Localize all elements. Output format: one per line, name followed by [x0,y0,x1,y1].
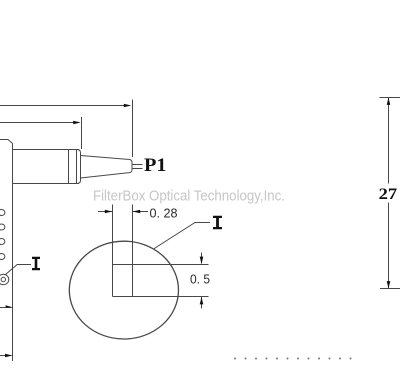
arrow right 0.28 [105,210,112,214]
dim 27 top tick [380,97,400,99]
pin 3 [0,239,5,245]
dim 0.5 bottom segment [201,297,203,309]
body outline top [0,140,13,144]
svg-text:0. 28: 0. 28 [150,206,178,221]
barrel ring 1 [68,150,70,184]
dotted fiber line [234,358,352,360]
arrow down 27 [387,281,391,288]
dim 0.28 right segment [133,211,148,213]
arrow right lower [5,354,12,358]
dim 0.5 top segment [201,253,203,264]
svg-text:P1: P1 [144,155,167,176]
dim line barrel length [0,122,79,124]
label I detail view [213,216,222,229]
dim 0.28 left segment [98,211,112,213]
arrow right barrel [73,121,80,125]
svg-text:27: 27 [379,186,398,203]
boot taper [81,156,133,179]
detail view circle [69,241,178,339]
arrow left 0.28 [133,210,140,214]
detail pin right edge [132,205,134,297]
arrow down 0.5 [200,257,204,264]
barrel top [13,149,80,151]
body bottom dim line [0,307,12,309]
arrow right at body bottom [5,305,12,307]
detail pin inner circle [1,277,5,281]
fiber line 1 [132,164,143,166]
arrow right overall [124,104,131,108]
extension line overall [132,100,134,158]
dim line overall length [0,105,130,107]
barrel ring 2 [76,150,78,184]
lower dim line [0,355,12,357]
leader to I main view [5,265,31,275]
dim 27 line lower [388,203,390,289]
extension line barrel [81,117,83,149]
label I main view [32,257,40,270]
detail flange top [113,264,209,266]
detail flange bottom [113,296,209,298]
pin 2 [0,224,5,230]
detail pin left edge [112,205,114,297]
barrel bottom [13,183,80,185]
body right edge + extension line [12,144,14,362]
collar right edge [78,150,81,184]
fiber line 2 [132,168,143,170]
pin 1 [0,210,5,216]
detail pin outer circle [0,274,9,284]
dim 27 line upper [388,98,390,184]
leader to I detail view [154,223,211,250]
pin 4 [0,254,5,260]
arrow up 27 [387,98,391,105]
svg-text:0. 5: 0. 5 [190,272,210,287]
svg-text:FilterBox Optical Technology,I: FilterBox Optical Technology,Inc. [93,189,285,205]
dim 27 bottom tick [380,288,400,290]
arrow up 0.5 [200,297,204,304]
